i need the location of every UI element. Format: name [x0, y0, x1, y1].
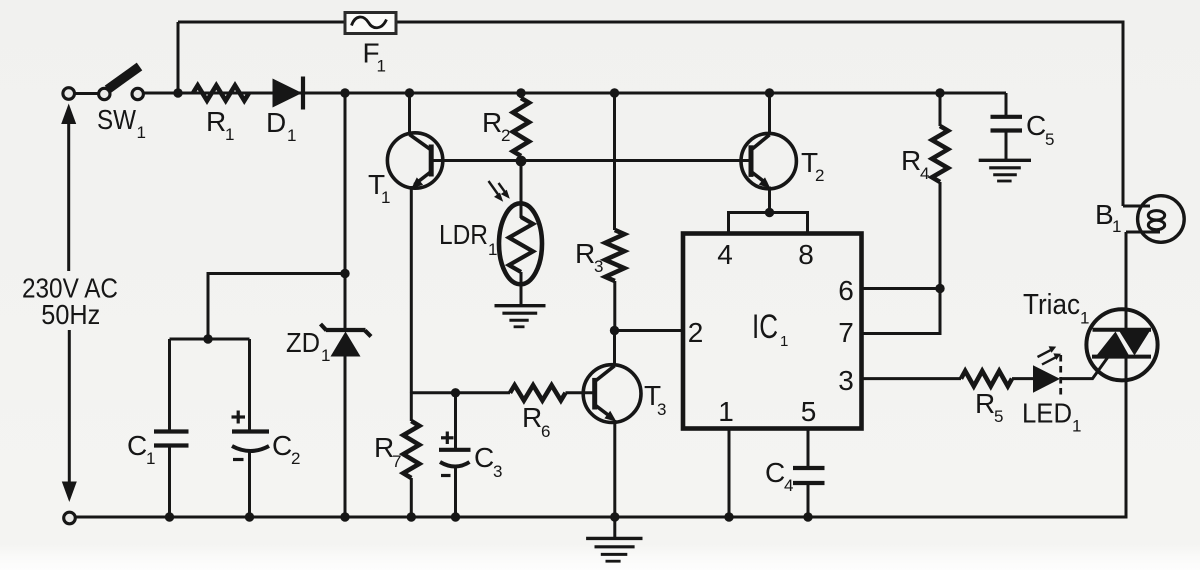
svg-text:D: D — [266, 107, 286, 138]
capacitor C1 — [154, 339, 189, 517]
LED LED1 — [1033, 355, 1061, 396]
label C2 — [272, 430, 300, 468]
junction C1/bottom — [165, 512, 174, 521]
junction cap-branch — [340, 269, 349, 278]
terminal bottom (AC return) — [64, 512, 76, 524]
label C1 — [127, 430, 155, 468]
label pin 6 — [838, 275, 854, 306]
wire T3 emitter — [613, 420, 616, 517]
svg-text:4: 4 — [784, 476, 793, 495]
label T3 — [644, 380, 666, 419]
svg-text:1: 1 — [377, 57, 386, 76]
svg-text:LED: LED — [1022, 398, 1072, 429]
resistor R5 — [961, 371, 1012, 386]
svg-text:3: 3 — [838, 365, 854, 396]
wire T3 collector — [613, 331, 616, 366]
junction R4/pin6 — [935, 284, 944, 293]
junction main/T1 — [405, 88, 414, 97]
resistor R1 — [193, 85, 249, 100]
svg-text:ZD: ZD — [286, 327, 320, 358]
LDR LDR1 — [499, 203, 542, 305]
junction pin1/bottom — [724, 512, 733, 521]
capacitor C5 — [991, 93, 1023, 160]
junction fuse-branch/main — [173, 88, 182, 97]
svg-text:50Hz: 50Hz — [41, 299, 100, 330]
wire T2 emitter — [768, 187, 771, 213]
label R2 — [482, 107, 510, 145]
svg-text:1: 1 — [718, 396, 734, 427]
wire R5-LED — [1012, 377, 1033, 380]
source arrow up — [61, 104, 76, 272]
capacitor C3 — [439, 393, 471, 517]
label pin 2 — [688, 317, 704, 348]
junction R3/T3/pin2 — [610, 326, 619, 335]
svg-text:1: 1 — [1072, 417, 1081, 436]
wire ZD1 branch upper — [344, 93, 347, 330]
resistor R7 — [403, 393, 419, 517]
label pin 4 — [717, 239, 733, 270]
label LED1 — [1022, 398, 1081, 436]
source arrow down — [62, 330, 77, 502]
label pin 8 — [798, 239, 814, 270]
wire pin2 link — [615, 329, 684, 332]
capacitor C2 — [232, 339, 270, 517]
svg-text:1: 1 — [225, 125, 234, 144]
label R3 — [575, 238, 603, 276]
svg-text:3: 3 — [493, 462, 502, 481]
svg-text:7: 7 — [392, 452, 401, 471]
svg-text:3: 3 — [657, 400, 666, 419]
resistor R3 — [605, 93, 624, 331]
resistor R4 — [932, 93, 948, 289]
transistor T3 — [583, 365, 641, 423]
wire gate rail y=393 — [411, 391, 510, 394]
wire pin1 to bottom — [728, 429, 731, 518]
svg-text:1: 1 — [321, 346, 330, 365]
junction T3/bottom — [610, 512, 619, 521]
label C3 — [474, 442, 502, 481]
wire T2 collector — [768, 93, 771, 135]
wire fuse branch drop — [177, 22, 180, 93]
wire LDR lead — [520, 161, 523, 218]
junction C3/bottom — [451, 512, 460, 521]
junction gate-rail/C3 — [451, 388, 460, 397]
transistor T2 — [741, 133, 796, 188]
switch SW1 — [99, 67, 144, 100]
wire pin5 to C4 — [807, 429, 810, 468]
label pin 5 — [801, 396, 817, 427]
svg-text:R: R — [975, 388, 995, 419]
ground main — [586, 517, 642, 561]
junction ZD1/bottom — [340, 512, 349, 521]
wire pin7 link — [861, 289, 940, 334]
svg-text:2: 2 — [291, 449, 300, 468]
svg-text:7: 7 — [838, 317, 854, 348]
ground LDR — [495, 306, 546, 327]
svg-text:1: 1 — [780, 333, 788, 350]
label 230V AC — [22, 273, 118, 304]
LED light arrows — [1038, 346, 1062, 364]
label LDR1 — [439, 219, 497, 259]
svg-text:6: 6 — [838, 275, 854, 306]
svg-text:1: 1 — [1112, 217, 1121, 236]
svg-text:5: 5 — [994, 407, 1003, 426]
op-amp IC1 box — [683, 234, 862, 429]
junction C1-C2 top — [203, 334, 212, 343]
label ZD1 — [286, 327, 330, 365]
svg-text:IC: IC — [752, 308, 778, 346]
wire top net (fuse line) — [178, 22, 1123, 206]
svg-text:1: 1 — [146, 449, 155, 468]
wire main positive rail y=93 — [142, 92, 1006, 95]
label R7 — [374, 432, 401, 471]
svg-text:1: 1 — [1080, 309, 1089, 328]
svg-text:R: R — [482, 107, 502, 138]
label B1 — [1095, 199, 1121, 236]
label T2 — [801, 147, 824, 185]
svg-text:R: R — [901, 145, 921, 176]
junction base-rail/R2/LDR — [516, 156, 527, 167]
wire terminal to switch — [75, 92, 98, 95]
wire bracket pins 4-8 — [729, 213, 808, 234]
ground C5 — [979, 160, 1031, 181]
label pin 3 — [838, 365, 854, 396]
wire base rail T1-T2 — [433, 159, 749, 162]
junction C4/bottom — [803, 512, 812, 521]
wire cap branch — [170, 274, 346, 340]
label pin 7 — [838, 317, 854, 348]
label T1 — [368, 169, 390, 207]
fuse F1 — [345, 13, 396, 34]
label R1 — [206, 106, 234, 144]
svg-text:1: 1 — [488, 240, 497, 259]
label C4 — [765, 457, 793, 495]
junction main/ZD1 — [340, 88, 349, 97]
label IC1 — [752, 308, 788, 350]
svg-text:3: 3 — [594, 257, 603, 276]
wire LED-gate — [1060, 357, 1108, 379]
svg-text:C: C — [474, 442, 494, 473]
svg-text:1: 1 — [381, 188, 390, 207]
svg-text:Triac: Triac — [1023, 289, 1080, 321]
capacitor C4 — [793, 468, 825, 517]
label R5 — [975, 388, 1003, 426]
svg-text:8: 8 — [798, 239, 814, 270]
label pin 1 — [718, 396, 734, 427]
svg-text:5: 5 — [1045, 130, 1054, 149]
svg-text:1: 1 — [287, 126, 296, 145]
svg-text:2: 2 — [501, 126, 510, 145]
wire pin6 link — [861, 287, 940, 290]
wire T1 collector — [408, 93, 411, 135]
junction main/R3 — [610, 88, 619, 97]
label F1 — [363, 38, 386, 76]
label R4 — [901, 145, 929, 183]
svg-text:4: 4 — [920, 164, 929, 183]
junction C2/bottom — [245, 512, 254, 521]
svg-text:R: R — [522, 402, 542, 433]
resistor R6 — [510, 385, 594, 400]
triac Triac1 — [1086, 309, 1157, 380]
junction main/R2 — [516, 88, 525, 97]
svg-text:2: 2 — [815, 166, 824, 185]
buzzer B1 — [1123, 196, 1184, 243]
svg-text:C: C — [765, 457, 785, 488]
svg-text:LDR: LDR — [439, 219, 488, 250]
terminal top (AC input) — [63, 88, 75, 100]
svg-text:R: R — [575, 238, 595, 269]
transistor T1 — [387, 133, 442, 189]
zener ZD1 — [321, 324, 372, 357]
diode D1 — [273, 77, 304, 110]
label 50Hz — [41, 299, 100, 330]
svg-text:2: 2 — [688, 317, 704, 348]
svg-text:1: 1 — [137, 123, 146, 142]
junction main/R4 — [935, 88, 944, 97]
svg-text:B: B — [1095, 199, 1114, 230]
label Triac1 — [1023, 289, 1089, 328]
junction main/T2 — [765, 88, 774, 97]
junction R7/bottom — [407, 512, 416, 521]
junction emitter/bracket — [765, 208, 774, 217]
svg-text:SW: SW — [97, 104, 136, 135]
svg-text:6: 6 — [541, 422, 550, 441]
wire ZD1 to bottom — [344, 356, 347, 517]
wire pin3 link — [861, 377, 961, 380]
svg-text:5: 5 — [801, 396, 817, 427]
resistor R2 — [513, 93, 529, 161]
label D1 — [266, 107, 296, 145]
label C5 — [1026, 110, 1054, 149]
svg-text:4: 4 — [717, 239, 733, 270]
wire bottom neutral rail — [76, 379, 1127, 517]
svg-text:C: C — [1026, 110, 1046, 141]
svg-text:C: C — [127, 430, 147, 461]
svg-text:R: R — [206, 106, 226, 137]
label SW1 — [97, 104, 146, 142]
wire triac MT1 down — [1125, 357, 1128, 517]
svg-text:C: C — [272, 430, 292, 461]
wire triac MT2 up — [1125, 232, 1128, 330]
LDR light arrows — [489, 181, 510, 202]
wire T1 emitter to R6 node — [410, 186, 413, 393]
label R6 — [522, 402, 550, 441]
